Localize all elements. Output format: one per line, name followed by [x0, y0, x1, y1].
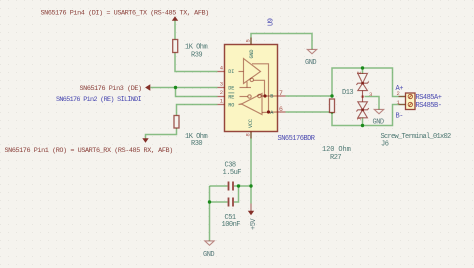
svg-text:GND: GND [203, 251, 214, 259]
svg-text:B: B [270, 94, 273, 100]
svg-text:5: 5 [245, 39, 252, 42]
svg-text:DI: DI [228, 69, 234, 75]
svg-text:D13: D13 [342, 89, 353, 97]
svg-text:RS485A+: RS485A+ [416, 94, 442, 102]
svg-text:1K Ohm: 1K Ohm [185, 44, 208, 52]
svg-text:6: 6 [279, 106, 283, 113]
svg-text:B-: B- [396, 113, 404, 121]
svg-text:Screw_Terminal_01x02: Screw_Terminal_01x02 [381, 133, 452, 141]
svg-text:SN65176 Pin2 (RE) SİLİNDİ: SN65176 Pin2 (RE) SİLİNDİ [56, 95, 142, 104]
svg-text:SN65176 Pin4 (DI) = USART6_TX: SN65176 Pin4 (DI) = USART6_TX (RS-485 TX… [41, 10, 209, 18]
svg-text:SN65176BDR: SN65176BDR [278, 135, 316, 143]
svg-text:J6: J6 [381, 140, 389, 148]
svg-text:+5V: +5V [250, 218, 258, 230]
svg-text:2: 2 [356, 71, 363, 74]
svg-text:A+: A+ [396, 85, 404, 93]
svg-text:DE: DE [228, 86, 234, 92]
svg-text:R30: R30 [191, 140, 202, 148]
svg-text:120 Ohm: 120 Ohm [322, 146, 351, 154]
svg-text:RS485B-: RS485B- [416, 102, 442, 110]
svg-text:8: 8 [245, 133, 252, 136]
svg-text:GND: GND [249, 50, 255, 59]
svg-text:RE: RE [228, 94, 234, 100]
svg-text:3: 3 [369, 91, 372, 98]
svg-text:100nF: 100nF [222, 221, 241, 229]
svg-text:VCC: VCC [248, 119, 254, 128]
svg-text:7: 7 [279, 90, 283, 97]
svg-text:U9: U9 [268, 18, 276, 26]
svg-text:R27: R27 [330, 154, 341, 162]
svg-text:R39: R39 [191, 52, 202, 60]
svg-text:1.5uF: 1.5uF [223, 169, 242, 177]
svg-text:RO: RO [228, 102, 234, 108]
svg-text:2: 2 [220, 89, 223, 96]
svg-text:3: 3 [220, 80, 223, 87]
svg-text:GND: GND [373, 119, 384, 127]
svg-text:GND: GND [305, 59, 316, 67]
svg-text:SN65176 Pin1 (RO) = USART6_RX: SN65176 Pin1 (RO) = USART6_RX (RS-485 RX… [5, 147, 173, 155]
svg-text:SN65176 Pin3 (DE): SN65176 Pin3 (DE) [80, 85, 142, 93]
